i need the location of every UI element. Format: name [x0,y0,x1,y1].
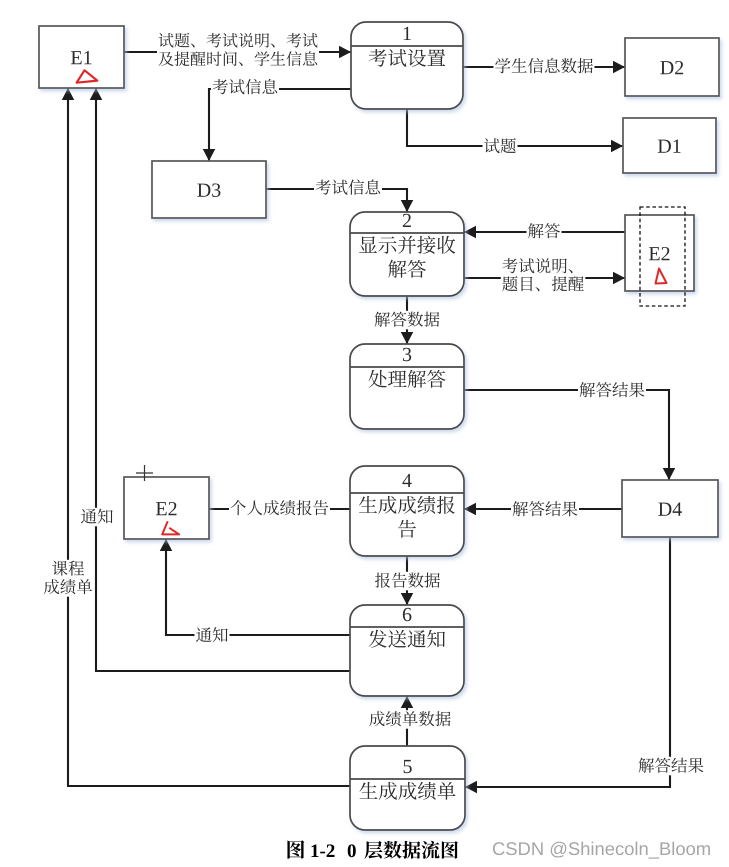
process 3 处理解答 [350,344,464,429]
watermark CSDN @Shinecoln_Bloom [493,842,710,859]
data store D4 [622,480,718,537]
external entity E1 [39,26,124,88]
process 5 生成成绩单 [350,746,465,830]
label 课程成绩单 [42,560,93,597]
label 解答结果(D4→P5) [637,757,705,776]
label 考试说明、题目、提醒 [501,257,586,294]
crosshair cursor mark [136,465,153,481]
label 考试信息(D3) [314,179,382,198]
wire: flow 课程成绩单 P5→E1 [62,88,350,786]
wire: flow 试题考试说明等 E1→P1 [124,46,351,59]
data store D3 [152,161,266,218]
label 解答 [527,222,562,241]
label 解答结果(D4→P4) [511,500,579,519]
wire: flow 考试信息 D3→P2 [266,189,413,212]
wire: flow 通知 P6→E2 [160,539,350,635]
label 报告数据 [374,572,442,591]
red entity marker (E1 triangle) [77,70,98,82]
process 6 发送通知 [350,605,464,696]
wire: flow 个人成绩报告 P4→E2 [209,508,350,510]
label 解答结果(P3→D4) [578,381,646,400]
wire: flow 解答 E2→P2 [464,226,625,239]
wire: flow 通知 P6→E1 [90,88,350,671]
external entity E2 (left) [124,477,209,539]
label 通知(P6→E2) [195,626,230,645]
process 4 生成成绩报告 [350,466,464,556]
red entity marker (E2 right triangle) [656,269,667,284]
external entity E2 (right) [625,215,694,291]
wire: flow 解答结果 D4→P5 [465,537,670,793]
red entity marker (E2 left triangle) [162,521,179,534]
wire: flow 考试信息 P1→D3 [203,89,351,161]
label 考试信息(upper) [211,78,279,97]
label 个人成绩报告 [229,499,330,518]
process 1 考试设置 [351,22,463,109]
data store D2 [625,38,719,96]
dashed selection rectangle around E2 [640,207,685,306]
label 试题、考试说明、考试及提醒时间、学生信息 [157,32,319,69]
process 2 显示并接收解答 [350,212,464,296]
label 试题 [483,137,518,156]
label 成绩单数据 [368,710,453,729]
wire: flow 试题 P1→D1 [407,108,623,152]
wire: flow 学生信息数据 P1→D2 [463,61,625,74]
wire: flow 解答结果 P3→D4 [464,390,675,480]
label 通知(P6→E1) [80,508,115,527]
label 解答数据 [373,311,441,330]
wire: flow 考试说明题目提醒 P2→E2 [464,272,625,285]
data store D1 [623,118,716,173]
label 学生信息数据 [494,57,595,75]
wire: flow 解答结果 D4→P4 [464,503,622,516]
wire: flow 解答数据 P2→P3 [401,296,414,344]
caption 图1-2 0层数据流图 [287,840,457,859]
wire: flow 报告数据 P4→P6 [401,556,414,605]
wire: flow 成绩单数据 P5→P6 [401,696,414,746]
